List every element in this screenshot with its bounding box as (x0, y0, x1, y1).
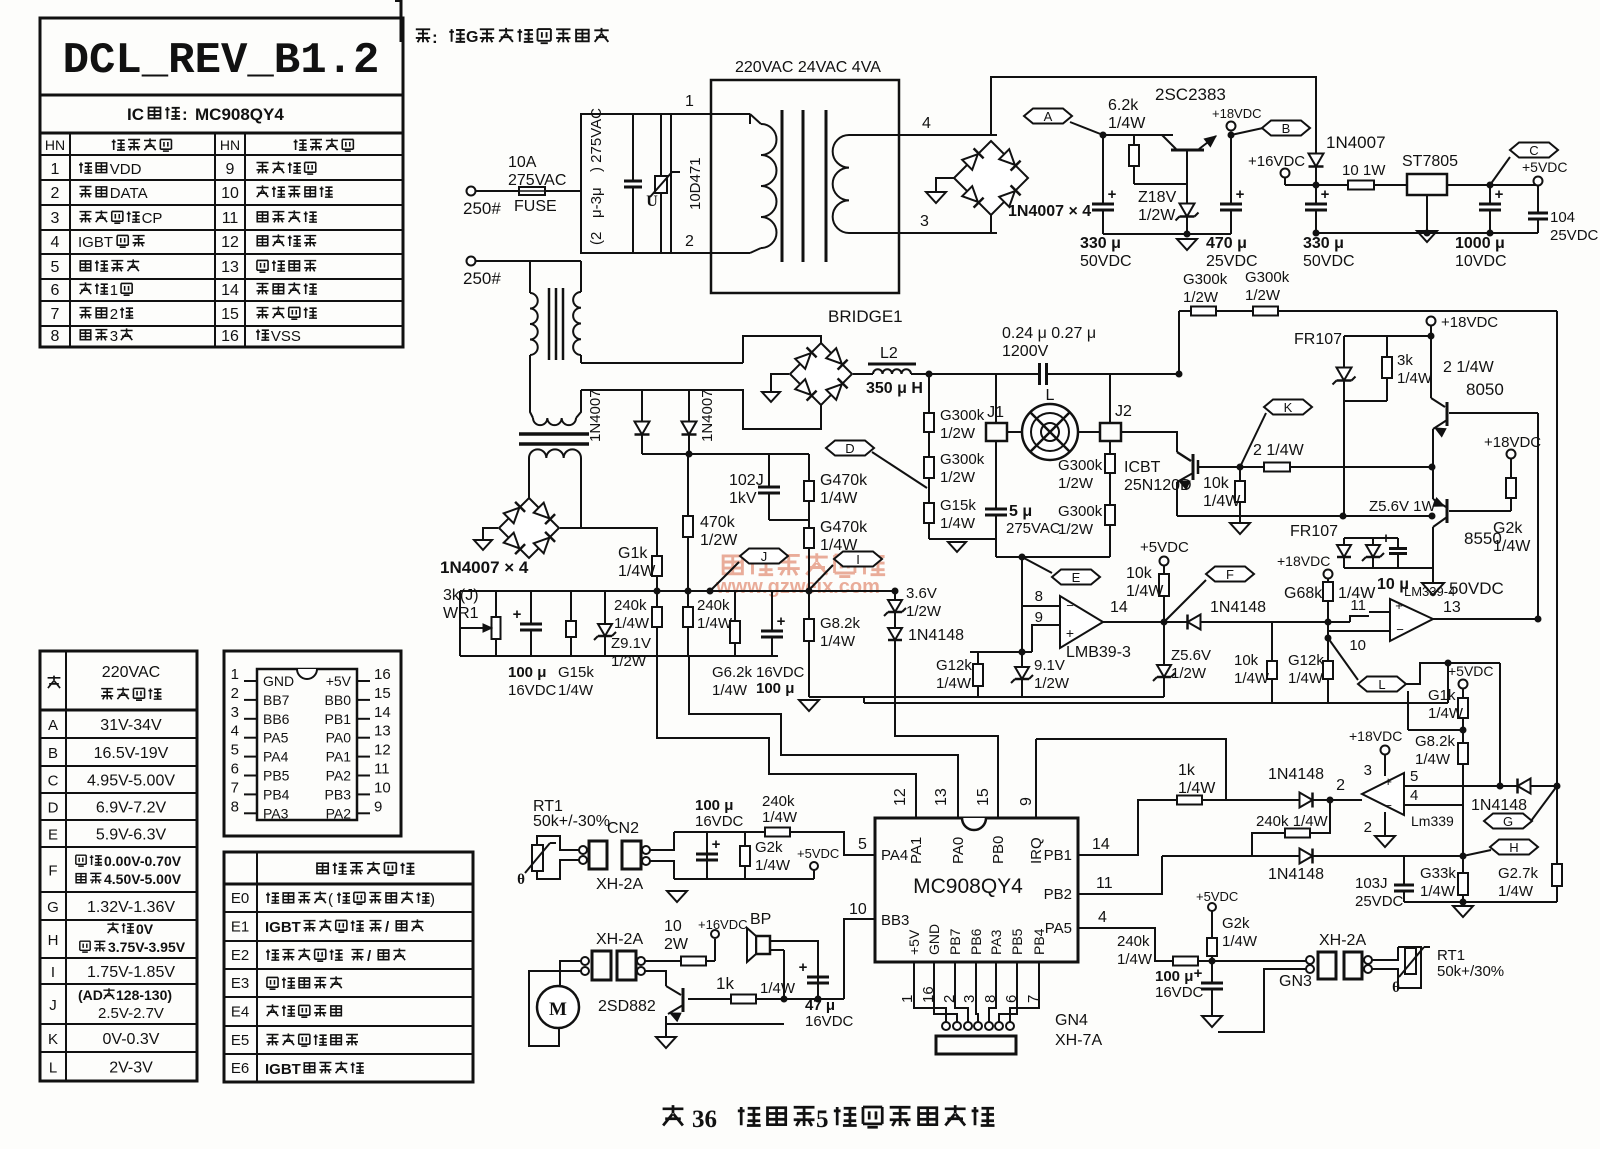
opamp LM339-4 (1390, 599, 1433, 641)
bridge1 in wire bottom (743, 389, 821, 429)
FR107 upper (1337, 368, 1352, 381)
+5vdc pa5 (1208, 903, 1216, 911)
svg-text:8: 8 (51, 328, 60, 345)
snubber cluster Z5.6V 1W (1344, 515, 1432, 517)
svg-text:7: 7 (51, 306, 60, 323)
G12k left (977, 660, 979, 697)
svg-text:0.00V-0.70V: 0.00V-0.70V (104, 853, 182, 869)
rail y697 (809, 696, 1022, 698)
svg-text:1/4W: 1/4W (1420, 883, 1456, 900)
svg-text:H: H (48, 932, 59, 949)
svg-text:4.95V-5.00V: 4.95V-5.00V (87, 773, 175, 790)
svg-text:1: 1 (231, 666, 239, 683)
svg-text:G300k: G300k (940, 451, 985, 468)
svg-text:GND: GND (926, 924, 942, 955)
svg-text:PA1: PA1 (908, 837, 925, 864)
47u cap (807, 977, 829, 983)
svg-text:E1: E1 (231, 919, 249, 936)
svg-text:BB3: BB3 (881, 912, 909, 929)
rail y656 (460, 655, 778, 657)
ST7805 (1407, 174, 1447, 195)
svg-text:G2k: G2k (755, 839, 783, 856)
pin8 wire (1022, 605, 1060, 607)
svg-text:XH-2A: XH-2A (596, 876, 643, 893)
240k b (687, 591, 689, 656)
svg-text:3k(J): 3k(J) (443, 587, 479, 604)
svg-text:15: 15 (374, 685, 391, 702)
svg-text:J: J (49, 997, 57, 1014)
svg-text:+: + (1495, 186, 1504, 203)
svg-text:10D471: 10D471 (687, 157, 704, 210)
svg-text:6: 6 (231, 761, 239, 778)
svg-text:2SD882: 2SD882 (598, 998, 656, 1015)
svg-text:E6: E6 (231, 1060, 249, 1077)
+5 G1k divider (1459, 680, 1468, 689)
svg-text:3: 3 (231, 704, 239, 721)
svg-text:PB4: PB4 (263, 786, 290, 802)
svg-text:G6.2k: G6.2k (712, 664, 753, 681)
svg-text:14: 14 (374, 704, 391, 721)
svg-text:+18VDC: +18VDC (1484, 434, 1541, 451)
svg-text:10VDC: 10VDC (1455, 253, 1507, 270)
L hexagon (1358, 677, 1406, 692)
caption fig 36 (663, 1105, 684, 1125)
svg-text:5: 5 (51, 259, 60, 276)
MC908QY4 pinout box (224, 651, 401, 836)
svg-text:5: 5 (816, 1106, 829, 1133)
svg-text:G470k: G470k (820, 519, 868, 536)
IGBT 25N120D (1177, 452, 1191, 461)
svg-text:Z18V: Z18V (1138, 189, 1177, 206)
right border (1556, 311, 1558, 786)
svg-text:25N120D: 25N120D (1124, 477, 1192, 494)
svg-text:G300k: G300k (1183, 271, 1228, 288)
current transformer left winding (530, 293, 538, 355)
svg-text:5: 5 (231, 742, 239, 759)
cluster to emitter (1432, 567, 1433, 569)
terminal 250# upper (467, 187, 476, 196)
svg-text:PB1: PB1 (1044, 847, 1072, 864)
E hexagon (1052, 570, 1100, 585)
XH-2A right (1318, 952, 1336, 979)
gnd 10k (1230, 523, 1250, 534)
speaker BP (756, 936, 770, 954)
svg-text:1/4W: 1/4W (936, 675, 972, 692)
svg-text:−: − (1066, 598, 1074, 613)
svg-text:6.2k: 6.2k (1108, 97, 1139, 114)
svg-text:10: 10 (1349, 637, 1366, 654)
svg-text:1N4148: 1N4148 (1268, 766, 1324, 783)
1N4148 to border (1500, 785, 1557, 787)
svg-text:1/4W: 1/4W (762, 809, 798, 826)
svg-text:G300k: G300k (940, 407, 985, 424)
gnd pa5 (1202, 1016, 1222, 1027)
svg-text:10k: 10k (1234, 652, 1259, 669)
G300k under J2 (1109, 441, 1111, 557)
svg-text:PB3: PB3 (325, 786, 352, 802)
svg-text:15: 15 (221, 306, 239, 323)
svg-text:): ) (430, 891, 435, 908)
svg-text:2: 2 (51, 185, 60, 202)
svg-text:10A: 10A (508, 154, 537, 171)
svg-text:PA5: PA5 (1045, 920, 1072, 937)
svg-text:1/4W: 1/4W (712, 682, 748, 699)
+18VDC drv (1427, 317, 1436, 326)
emitter-spk wire (666, 1023, 784, 1025)
svg-text:16VDC: 16VDC (805, 1013, 854, 1030)
svg-text:U: U (646, 193, 658, 210)
svg-text:11: 11 (1350, 597, 1366, 614)
svg-text:1N4007: 1N4007 (699, 389, 716, 442)
svg-text:50VDC: 50VDC (1449, 579, 1504, 598)
+18VDC g2k (1507, 450, 1516, 459)
svg-text:MC908QY4: MC908QY4 (195, 105, 284, 124)
svg-text:6: 6 (51, 282, 60, 299)
svg-text:1/4W: 1/4W (755, 857, 791, 874)
svg-text:μ-3μ: μ-3μ (588, 187, 605, 218)
svg-text:5: 5 (1410, 768, 1418, 785)
svg-text:E5: E5 (231, 1032, 249, 1049)
svg-text:E: E (1072, 570, 1081, 585)
CT core (548, 288, 551, 360)
svg-text:4: 4 (51, 234, 60, 251)
svg-text:25VDC: 25VDC (1550, 227, 1599, 244)
svg-text:10: 10 (374, 779, 391, 796)
1N4007 pair diodes (641, 390, 643, 454)
svg-text:250#: 250# (463, 269, 501, 288)
svg-text:Z5.6V: Z5.6V (1171, 647, 1211, 664)
svg-text:+: + (1108, 186, 1117, 203)
svg-text:J1: J1 (987, 404, 1004, 421)
100u cap 2 (771, 591, 773, 656)
svg-text:PA3: PA3 (263, 805, 289, 821)
bottom right rail (1404, 901, 1557, 903)
base wire (1134, 183, 1187, 185)
svg-text:www.gzweix.com: www.gzweix.com (715, 576, 880, 598)
out rail (1447, 184, 1538, 186)
103J cap (1403, 856, 1405, 902)
C hexagon (1510, 143, 1558, 158)
J1 wire down (995, 374, 997, 423)
GN3 second wire (1218, 969, 1310, 1032)
svg-text:14: 14 (221, 282, 239, 299)
svg-text:+: + (513, 606, 522, 623)
svg-text:IRQ: IRQ (1028, 837, 1045, 864)
wire lower (476, 260, 581, 262)
svg-text:8: 8 (1035, 588, 1043, 605)
svg-text:BB0: BB0 (325, 692, 352, 708)
bridge ac in left (936, 178, 954, 192)
svg-text:−: − (1384, 798, 1392, 813)
opamp LMB39-3 (1060, 596, 1103, 648)
top rail from bridge (991, 77, 1316, 151)
terminal 250# lower (467, 257, 476, 266)
svg-text:1: 1 (51, 161, 60, 178)
B hexagon (1262, 121, 1310, 136)
1000u cap (1489, 185, 1491, 233)
svg-text:2 1/4W: 2 1/4W (1443, 359, 1495, 376)
pin4 wire (1404, 804, 1463, 806)
1k res (1177, 796, 1202, 805)
wire y390 right (581, 389, 741, 391)
svg-text:PA4: PA4 (263, 749, 289, 765)
svg-text:100 μ: 100 μ (1155, 968, 1193, 985)
svg-text:G15k: G15k (558, 664, 594, 681)
svg-text:1kV: 1kV (729, 490, 757, 507)
svg-text:1k: 1k (1178, 762, 1196, 779)
svg-text:PA3: PA3 (988, 929, 1004, 955)
FR107 lower (1343, 538, 1345, 568)
3k res (1386, 336, 1388, 401)
emitter vert (1432, 429, 1434, 499)
svg-text:1200V: 1200V (1002, 343, 1049, 360)
svg-text:1N4148: 1N4148 (908, 627, 964, 644)
svg-text:G8.2k: G8.2k (1415, 733, 1456, 750)
IRQ drop (1036, 739, 1226, 800)
svg-text:4.50V-5.00V: 4.50V-5.00V (104, 871, 182, 887)
240k a (656, 591, 658, 656)
rail y703 (864, 702, 1448, 704)
svg-text:240k: 240k (762, 793, 795, 810)
svg-text:BB7: BB7 (263, 692, 290, 708)
svg-text:VSS: VSS (271, 328, 301, 345)
svg-text:PA4: PA4 (881, 847, 908, 864)
svg-text:10k: 10k (1126, 565, 1153, 582)
svg-text:2: 2 (1364, 819, 1372, 836)
coil L (1022, 404, 1078, 460)
svg-text:+18VDC: +18VDC (1349, 728, 1402, 744)
G1k res (656, 528, 658, 591)
svg-text:PB0: PB0 (990, 836, 1007, 864)
svg-text:1/4W: 1/4W (1288, 670, 1324, 687)
svg-text:1/4W: 1/4W (1415, 751, 1451, 768)
wire A-node rail (1028, 177, 1060, 179)
svg-text:13: 13 (1443, 599, 1461, 616)
svg-text:+: + (1321, 186, 1330, 203)
svg-text:25VDC: 25VDC (1355, 893, 1404, 910)
row F two-line (76, 855, 86, 866)
G300k rail a (1191, 307, 1216, 316)
svg-text:3: 3 (920, 213, 929, 230)
svg-text:275VAC: 275VAC (1006, 520, 1061, 537)
svg-text:1/2W: 1/2W (1034, 675, 1070, 692)
9.1V zener left (1021, 652, 1023, 697)
G470k chain (808, 454, 810, 591)
svg-text:BB6: BB6 (263, 711, 290, 727)
3.6V zener chain (894, 591, 896, 644)
motor M (537, 986, 579, 1028)
IC model row (40, 132, 403, 135)
svg-text:L: L (49, 1060, 57, 1077)
102J cap (768, 454, 770, 520)
svg-text:E4: E4 (231, 1004, 249, 1021)
svg-text:HN: HN (45, 137, 65, 153)
svg-text:Lm339: Lm339 (1411, 813, 1454, 829)
svg-text:L: L (1046, 387, 1055, 404)
svg-text:1N4148: 1N4148 (1210, 599, 1266, 616)
K junction (1237, 464, 1244, 471)
svg-text:G: G (466, 29, 478, 46)
svg-text:16VDC: 16VDC (1155, 984, 1204, 1001)
svg-text:F: F (1226, 567, 1234, 582)
svg-text:10k: 10k (1203, 475, 1230, 492)
+16VDC terminal (1281, 169, 1290, 178)
svg-text:1/4W: 1/4W (558, 682, 594, 699)
ref wire y652 (970, 651, 1032, 653)
svg-text:9.1V: 9.1V (1034, 657, 1065, 674)
10 1W resistor (1348, 181, 1374, 190)
gate wire (1198, 466, 1240, 468)
svg-text:1/4W: 1/4W (1108, 115, 1146, 132)
gnd 50VDC (1422, 583, 1444, 595)
svg-text:E: E (48, 827, 58, 844)
svg-text:CP: CP (142, 210, 163, 227)
pin9 wire (1045, 624, 1060, 626)
wire pin2 (671, 252, 750, 254)
svg-text:G1k: G1k (618, 545, 648, 562)
svg-text:9: 9 (226, 161, 235, 178)
svg-text:+: + (1395, 598, 1403, 613)
WR1 pot 3k(J) (495, 591, 497, 617)
Z5.6V cmp (1163, 622, 1165, 697)
svg-text:240k: 240k (614, 597, 647, 614)
fr107/3k loop (1344, 335, 1431, 337)
aux xfmr core (519, 432, 589, 436)
note: resistors with G prefix are metal film (416, 29, 430, 42)
aux bridge left gnd (483, 528, 498, 540)
primary winding (749, 114, 751, 124)
svg-text:3: 3 (51, 210, 60, 227)
svg-text:GN4: GN4 (1055, 1012, 1088, 1029)
wire y389 (581, 388, 743, 390)
svg-text:1.75V-1.85V: 1.75V-1.85V (87, 964, 175, 981)
filter cap (632, 114, 634, 253)
svg-text:1/4W: 1/4W (1222, 933, 1258, 950)
aux bridge 1N4007 x4 (499, 498, 559, 558)
aux transformer winding (529, 449, 581, 458)
svg-text:PB4: PB4 (1031, 928, 1047, 955)
A node hexagon (1024, 109, 1072, 124)
G hexagon (1484, 814, 1532, 829)
svg-text:470k: 470k (700, 514, 736, 531)
svg-text:B: B (1282, 121, 1291, 136)
svg-text:G2k: G2k (1222, 915, 1250, 932)
svg-text:PA0: PA0 (326, 730, 352, 746)
svg-text:+16VDC: +16VDC (1248, 153, 1305, 170)
330u cap 1 (1102, 135, 1104, 234)
CT bottom out (576, 390, 581, 418)
bottom rail left psu (1103, 233, 1231, 235)
svg-text:9: 9 (1018, 797, 1035, 806)
G2.7k (1556, 786, 1558, 902)
svg-text:+5V: +5V (906, 929, 922, 955)
bus 1n4148 down (895, 644, 998, 818)
svg-text:2SC2383: 2SC2383 (1155, 85, 1226, 104)
svg-text:G: G (1503, 814, 1513, 829)
varistor 10D471 (657, 114, 659, 176)
CT left bottom (530, 355, 533, 418)
svg-text:1/4W: 1/4W (1397, 370, 1433, 387)
svg-text:1/4W: 1/4W (1234, 670, 1270, 687)
rail y135 (1103, 134, 1173, 136)
svg-text:1000 μ: 1000 μ (1455, 235, 1505, 252)
svg-text:A: A (1044, 109, 1053, 124)
J hexagon (740, 549, 788, 564)
svg-text:3k: 3k (1397, 352, 1413, 369)
+5VDC mid (1160, 557, 1169, 566)
E junction bus (1010, 651, 1022, 653)
wire out cont (1240, 621, 1350, 623)
svg-text:1k: 1k (716, 974, 734, 993)
svg-text:104: 104 (1550, 209, 1575, 226)
svg-text:50k+/-30%: 50k+/-30% (533, 813, 610, 830)
H hexagon (1490, 840, 1538, 855)
svg-text:3: 3 (1364, 762, 1372, 779)
G68k (1327, 578, 1329, 638)
svg-text:1N4148: 1N4148 (1471, 797, 1527, 814)
svg-text:8: 8 (231, 798, 239, 815)
10 2W res (645, 960, 715, 962)
svg-text:1/4W: 1/4W (820, 490, 858, 507)
E rail (996, 556, 1110, 558)
G2k drv (1510, 459, 1512, 511)
svg-text:IGBT: IGBT (78, 234, 113, 251)
L-J2 wire (1078, 431, 1100, 433)
bus to PA1 (657, 656, 916, 818)
svg-text:13: 13 (221, 259, 239, 276)
100u cn2 (674, 831, 765, 833)
svg-text:DCL_REV_B1.2: DCL_REV_B1.2 (63, 36, 380, 86)
svg-text:1.32V-1.36V: 1.32V-1.36V (87, 899, 175, 916)
big box top rail (1179, 310, 1557, 312)
470k res (687, 454, 689, 591)
bridge1 gnd (771, 374, 789, 392)
svg-text:220VAC 24VAC 4VA: 220VAC 24VAC 4VA (735, 59, 881, 76)
pin3 +18 (1384, 755, 1386, 776)
CT right top wire (580, 261, 582, 292)
svg-text:FR107: FR107 (1294, 331, 1342, 348)
out14 wire (1103, 621, 1164, 623)
wire y363 (581, 362, 743, 364)
svg-text:PB6: PB6 (968, 928, 984, 955)
L2 inductor (853, 373, 873, 375)
svg-text:350 μ H: 350 μ H (866, 380, 923, 397)
RT1 right (1372, 947, 1398, 960)
J2 wire up (1109, 374, 1111, 423)
8550 collector down (1432, 527, 1434, 583)
gnd rail697 (799, 700, 819, 711)
G300k rail b (1253, 307, 1278, 316)
pin11 (1369, 611, 1390, 613)
svg-text:XH-2A: XH-2A (596, 931, 643, 948)
svg-text:0.24 μ 0.27 μ: 0.24 μ 0.27 μ (1002, 325, 1096, 342)
emitter rail (1177, 515, 1343, 517)
pin function table (40, 154, 403, 156)
CT bottom winding (533, 418, 576, 425)
1N4148 c (1300, 849, 1313, 864)
pin2 bottom gnd (1384, 812, 1386, 836)
svg-text:14: 14 (1092, 836, 1110, 853)
svg-text:1/4W: 1/4W (618, 563, 656, 580)
E down to comparator (1021, 557, 1023, 652)
svg-text:12: 12 (374, 742, 391, 759)
svg-text:G: G (47, 899, 59, 916)
rail +16 (1285, 184, 1407, 186)
svg-text:11: 11 (222, 210, 239, 227)
svg-text:1/2W: 1/2W (940, 469, 976, 486)
svg-text:16VDC: 16VDC (695, 813, 744, 830)
XH-2A conn pair (589, 841, 607, 869)
